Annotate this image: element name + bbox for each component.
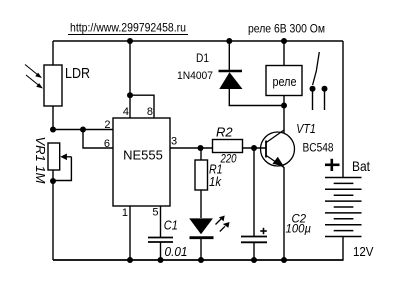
svg-text:12V: 12V	[353, 244, 374, 259]
svg-text:NE555: NE555	[123, 148, 163, 163]
wire: battery negative to bottom rail	[53, 237, 343, 261]
junction: node A (LDR / VR1 / pins 2,6)	[50, 127, 56, 133]
junction: pins 4/8 tie	[127, 92, 133, 98]
svg-text:0.01: 0.01	[165, 244, 188, 259]
junction: top rail / D1	[226, 38, 232, 44]
wire: left rail top to LDR	[52, 41, 54, 66]
wire: VR1 to bottom rail	[52, 170, 54, 260]
wire: pin 4 to top rail	[129, 41, 131, 118]
wire: right rail to battery +	[342, 41, 344, 178]
junction: pin2/pin6 tee	[80, 127, 86, 133]
svg-text:4: 4	[123, 106, 129, 118]
relay K1	[266, 66, 302, 96]
svg-text:BC548: BC548	[303, 141, 334, 155]
junction: base / C2	[251, 145, 257, 151]
wire: LDR to node A	[52, 106, 54, 130]
wire: pin 5 to C1	[160, 206, 162, 238]
wire: R1 to LED	[200, 190, 202, 218]
svg-text:C1: C1	[164, 218, 178, 232]
svg-text:1: 1	[122, 207, 128, 219]
svg-text:1N4007: 1N4007	[177, 70, 213, 82]
junction: top rail / relay	[281, 38, 287, 44]
diode D1	[219, 71, 243, 89]
junction: relay / D1 / collector	[281, 103, 287, 109]
svg-text:1k: 1k	[209, 175, 222, 189]
resistor R2	[213, 140, 243, 153]
LED HL1	[189, 216, 229, 238]
junction: VR1 wiper / bottom	[50, 178, 56, 184]
svg-text:реле 6В 300 Ом: реле 6В 300 Ом	[248, 22, 325, 36]
svg-text:6: 6	[104, 138, 110, 150]
potentiometer VR1	[48, 143, 71, 181]
wire: node A to pin 2	[53, 129, 113, 131]
junction: C2 / bottom rail	[251, 257, 257, 263]
wire: D1 cathode to top rail	[228, 41, 230, 71]
wire: bottom rail (0V)	[53, 259, 343, 261]
IC U1 NE555	[113, 118, 170, 206]
junction: C1 / bottom rail	[158, 257, 164, 263]
label: site url http://www.299792458.ru	[68, 21, 188, 35]
relay contact terminal 2	[322, 86, 328, 110]
wire: top rail (+12V)	[53, 40, 343, 42]
wire: C2 to bottom rail	[253, 242, 255, 260]
relay contact lever	[313, 52, 320, 85]
svg-text:VT1: VT1	[296, 121, 316, 136]
svg-text:Bat: Bat	[352, 158, 370, 174]
svg-text:http://www.299792458.ru: http://www.299792458.ru	[70, 21, 186, 35]
transistor VT1	[261, 130, 295, 168]
resistor R1	[195, 160, 208, 190]
svg-text:2: 2	[104, 119, 110, 131]
svg-text:100µ: 100µ	[286, 224, 312, 236]
junction: pin 3 / R1	[198, 145, 204, 151]
wire: LED to bottom rail	[200, 238, 202, 260]
wire: base node to C2	[253, 148, 255, 237]
wire: D1 anode to relay node	[229, 89, 284, 106]
battery + mark	[325, 159, 340, 171]
svg-text:3: 3	[171, 136, 177, 148]
relay contact terminal 1	[310, 86, 316, 110]
wire: relay to top rail	[283, 41, 285, 66]
wire: pin3 node to R1	[200, 148, 202, 160]
junction: top rail / pins 4-8	[127, 38, 133, 44]
wire: R2 to base node	[243, 147, 267, 149]
svg-text:5: 5	[152, 207, 158, 219]
battery GB1	[325, 178, 362, 237]
wire: collector to relay node	[283, 106, 285, 134]
wire: pin 6 jog	[83, 130, 113, 149]
wire: C1 to bottom rail	[160, 242, 162, 260]
wire: pin 3 to R2	[170, 147, 213, 149]
wire: pin 1 to bottom rail	[129, 206, 131, 260]
svg-text:LDR: LDR	[65, 65, 90, 82]
svg-text:реле: реле	[273, 75, 297, 89]
svg-text:D1: D1	[196, 51, 209, 65]
svg-text:R2: R2	[216, 125, 233, 140]
photoresistor LDR	[25, 65, 62, 107]
wire: relay to relay node	[283, 96, 285, 106]
junction: emitter / bottom rail	[281, 257, 287, 263]
junction: pin 1 / bottom rail	[127, 257, 133, 263]
svg-text:VR1 1M: VR1 1M	[33, 137, 48, 184]
svg-text:8: 8	[147, 106, 153, 118]
wire: pin 8 tie	[130, 95, 154, 118]
wire: emitter to bottom rail	[283, 167, 285, 260]
junction: LED / bottom rail	[198, 257, 204, 263]
capacitor C1	[148, 238, 173, 243]
capacitor C2	[241, 228, 267, 243]
